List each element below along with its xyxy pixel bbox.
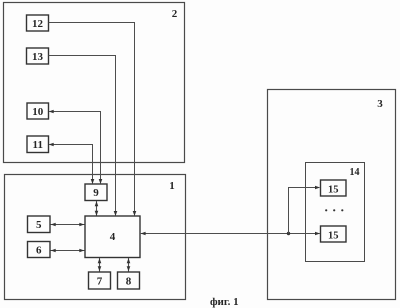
block 12	[27, 15, 49, 31]
label 3	[377, 98, 383, 110]
bidirectional wire block 5 - block 4	[51, 223, 85, 227]
svg-text:5: 5	[36, 219, 42, 231]
ellipsis between blocks 15	[325, 209, 343, 211]
svg-text:10: 10	[32, 106, 44, 118]
group box 1 (control unit)	[5, 175, 186, 300]
block 8	[118, 272, 140, 289]
wire from block 12 to block 4	[49, 23, 137, 217]
caption: фиг. 1	[210, 296, 239, 308]
svg-text:8: 8	[126, 275, 132, 287]
svg-text:7: 7	[97, 275, 103, 287]
svg-text:4: 4	[110, 231, 116, 243]
svg-text:6: 6	[36, 244, 42, 256]
wire to block 10 and block 9	[49, 110, 103, 184]
block 11	[27, 136, 49, 153]
wire to block 11 and block 9	[49, 143, 95, 184]
block 4 (central processing block)	[85, 216, 140, 258]
label 14	[350, 167, 360, 178]
junction node on main wire	[287, 232, 290, 235]
branch wire to upper block 15	[289, 186, 321, 234]
bidirectional wire block 9 - block 4	[95, 201, 99, 216]
svg-text:1: 1	[169, 180, 175, 192]
block 5	[28, 216, 51, 233]
bidirectional wire block 7 - block 4	[98, 258, 102, 272]
block 13	[27, 48, 49, 64]
bidirectional wire block 6 - block 4	[51, 249, 85, 253]
svg-text:2: 2	[172, 8, 178, 20]
svg-text:12: 12	[32, 18, 44, 30]
svg-text:9: 9	[93, 187, 99, 199]
group box 14 (block of units 15)	[306, 163, 365, 262]
label 2	[172, 8, 178, 20]
block 9	[85, 184, 107, 201]
block 7	[89, 272, 111, 289]
main wire block 4 - lower block 15	[141, 232, 320, 236]
group box 2 (sensor group)	[4, 3, 185, 163]
wire from block 13 to block 4	[49, 56, 118, 217]
block 15 (lower)	[321, 226, 347, 242]
block 6	[28, 242, 51, 258]
svg-text:3: 3	[377, 98, 383, 110]
svg-text:15: 15	[328, 231, 339, 242]
svg-text:фиг. 1: фиг. 1	[210, 296, 239, 308]
label 1	[169, 180, 175, 192]
block 10	[27, 103, 49, 119]
svg-text:14: 14	[350, 167, 360, 178]
svg-text:13: 13	[32, 51, 44, 63]
svg-text:15: 15	[328, 184, 339, 195]
svg-text:11: 11	[33, 139, 43, 151]
bidirectional wire block 8 - block 4	[127, 258, 131, 272]
block 15 (upper)	[321, 180, 347, 196]
group box 3 (output group)	[268, 90, 396, 300]
